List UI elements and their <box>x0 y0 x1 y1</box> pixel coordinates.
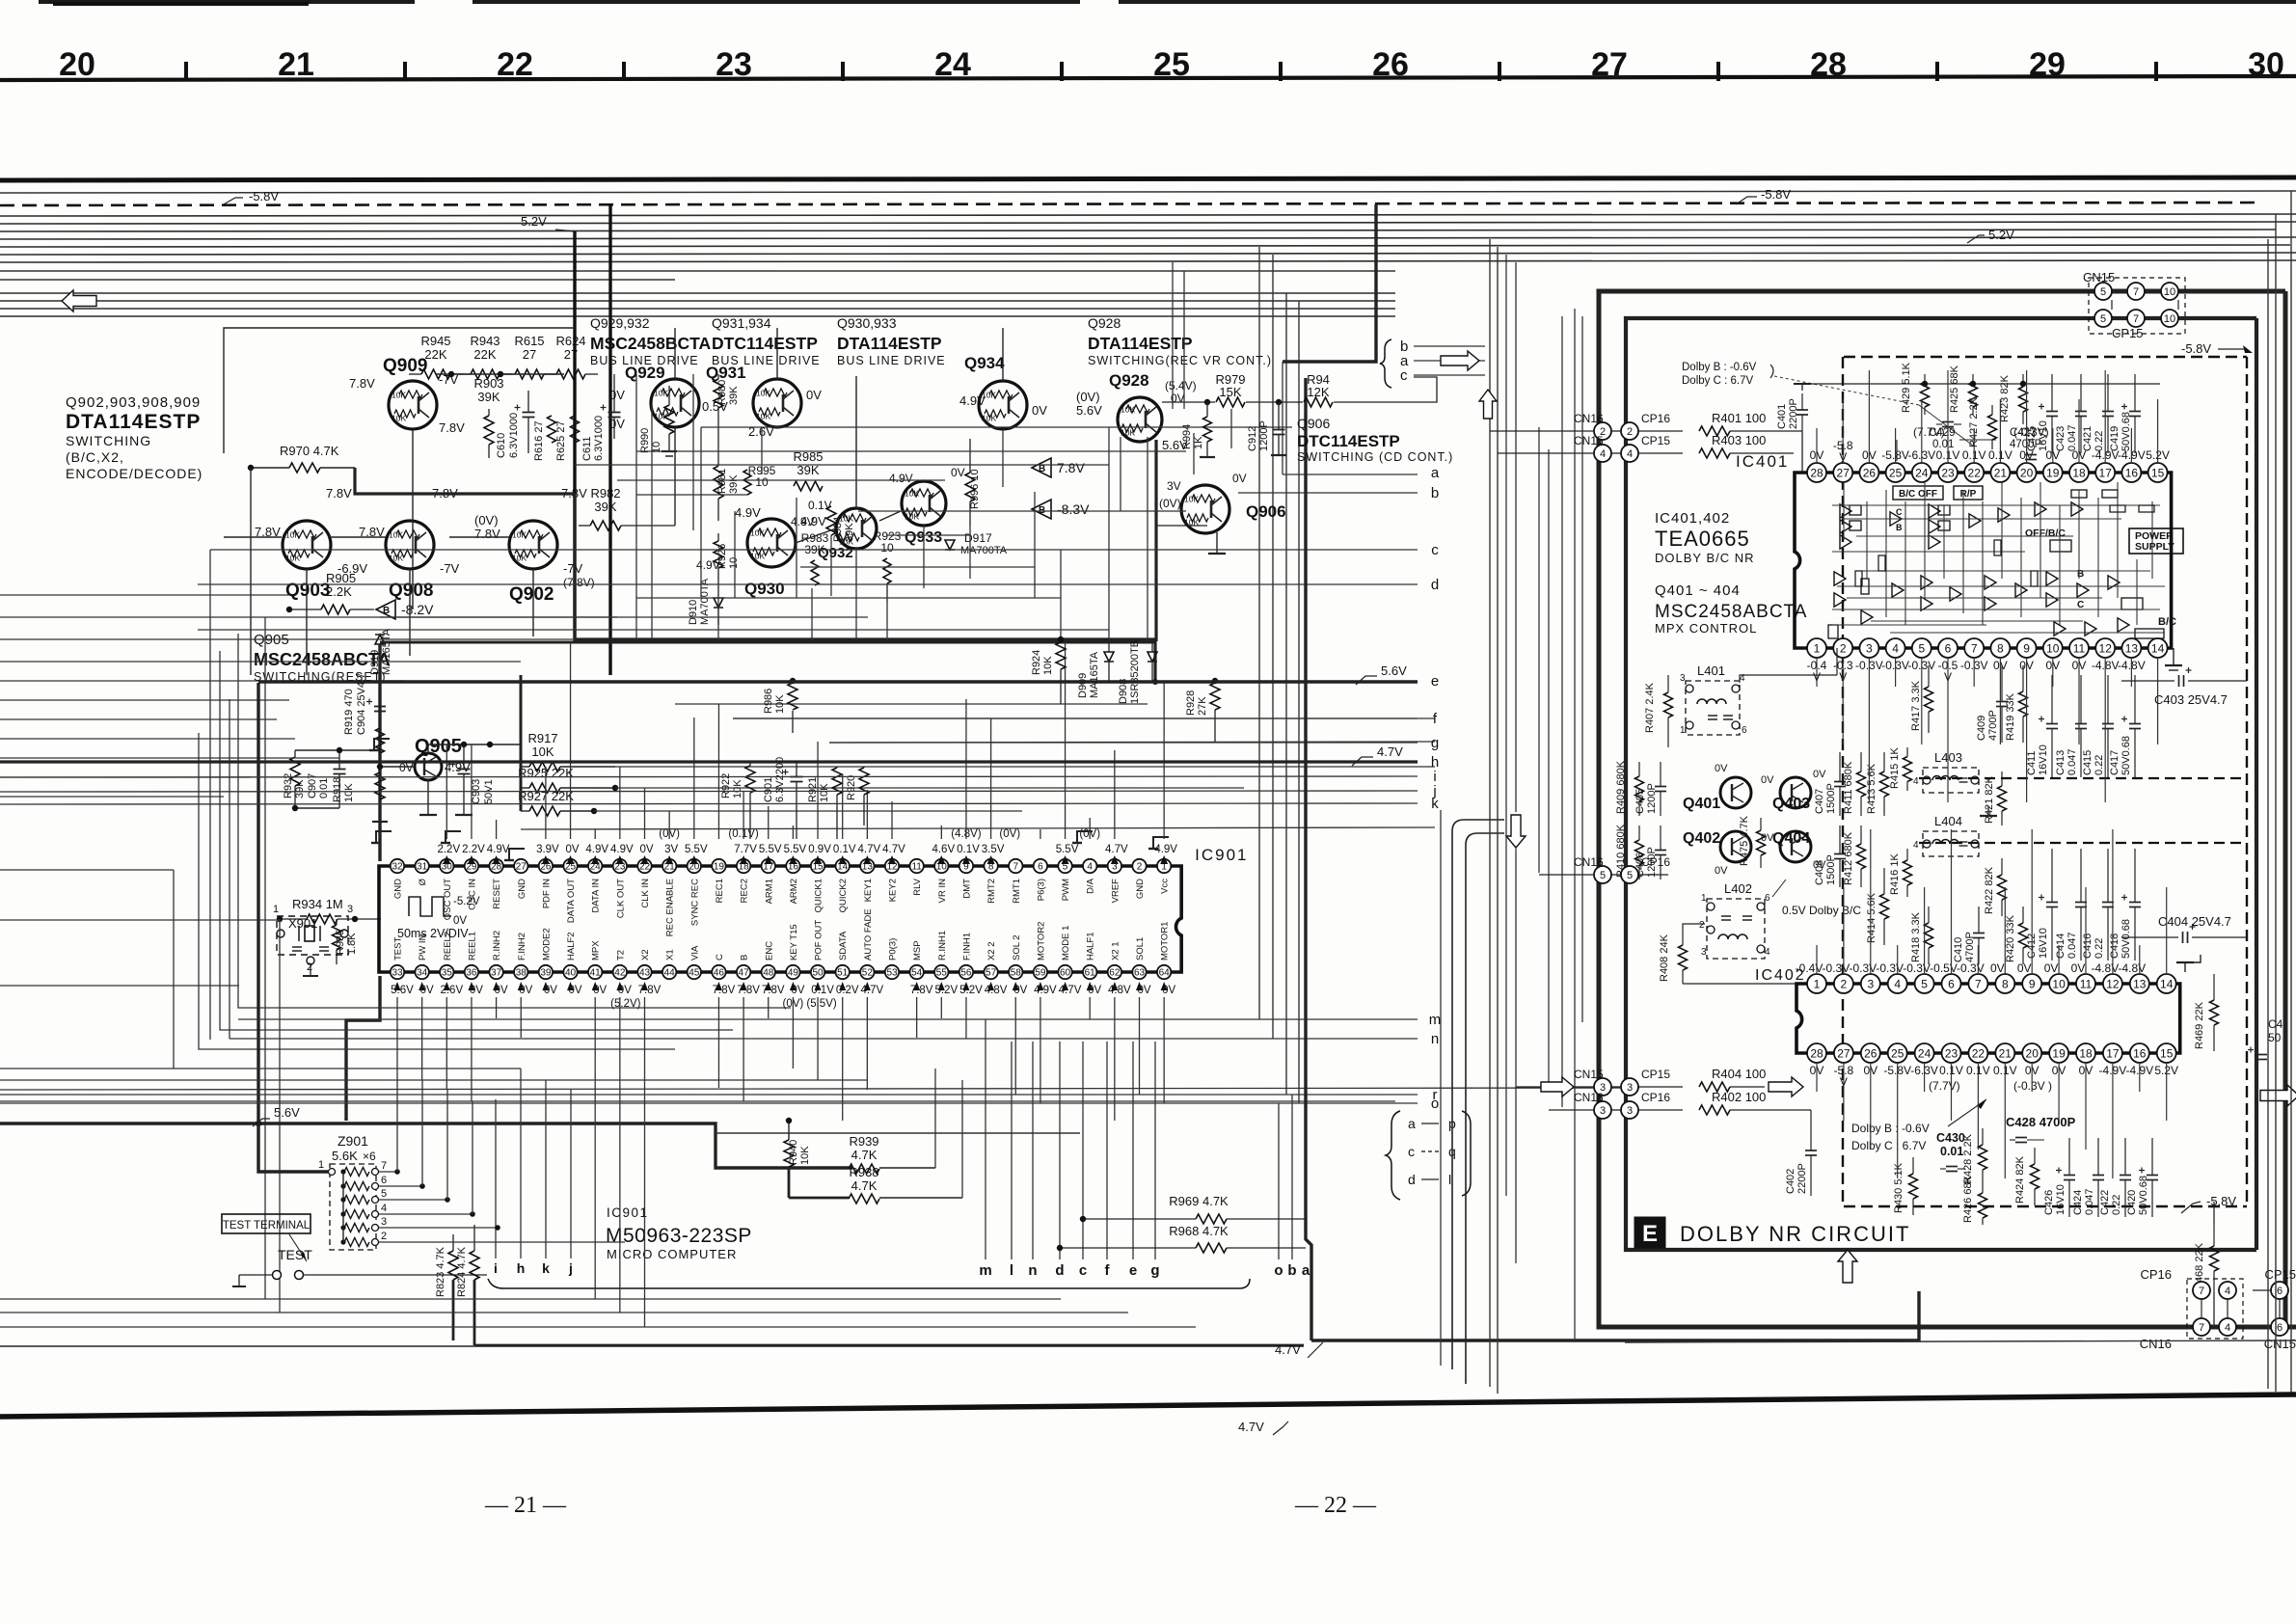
IC401 top pins 28-15 <box>1807 463 1826 482</box>
svg-text:4: 4 <box>381 1203 387 1214</box>
svg-text:CP15: CP15 <box>1641 434 1670 447</box>
svg-text:10: 10 <box>2164 286 2175 298</box>
svg-text:MOTOR2: MOTOR2 <box>1036 922 1046 961</box>
svg-text:l: l <box>1010 1262 1013 1279</box>
svg-text:-5.2V: -5.2V <box>453 896 480 907</box>
svg-text:27: 27 <box>516 862 527 873</box>
svg-text:10K: 10K <box>1121 428 1135 438</box>
svg-text:62: 62 <box>1109 968 1121 979</box>
node letter g <box>829 742 1418 744</box>
svg-text:35: 35 <box>442 968 453 979</box>
node letter e thick 5.6V wire <box>258 680 1418 683</box>
svg-text:4: 4 <box>2225 1286 2230 1297</box>
node letter i <box>0 776 1418 777</box>
svg-text:50: 50 <box>2268 1031 2282 1044</box>
svg-text:26: 26 <box>1864 1046 1877 1060</box>
wire q908 emitter <box>409 569 411 656</box>
wire to node d <box>198 583 1418 585</box>
svg-text:C403 25V4.7: C403 25V4.7 <box>2154 692 2228 707</box>
svg-text:C901: C901 <box>763 777 774 802</box>
svg-text:CLK IN: CLK IN <box>640 879 651 908</box>
wire collector row1 <box>436 373 564 375</box>
IC401 internal circuitry <box>1893 486 1943 500</box>
svg-text:B: B <box>740 955 750 961</box>
svg-text:10K: 10K <box>1184 495 1199 504</box>
IC401 bottom pins 1-14 <box>1807 638 1826 658</box>
svg-text:MPX CONTROL: MPX CONTROL <box>1655 621 1757 636</box>
svg-text:25: 25 <box>1891 1046 1904 1060</box>
svg-text:R990: R990 <box>639 428 651 453</box>
svg-text:-0.3V: -0.3V <box>1903 961 1931 975</box>
svg-text:d: d <box>1055 1262 1064 1279</box>
svg-text:(0V): (0V) <box>999 828 1020 840</box>
svg-text:0V: 0V <box>1032 403 1047 418</box>
svg-text:Q909: Q909 <box>383 356 427 376</box>
svg-text:Q906: Q906 <box>1297 416 1330 431</box>
svg-text:22: 22 <box>1972 1046 1985 1060</box>
svg-text:6.3V2200: 6.3V2200 <box>774 757 786 802</box>
svg-text:45: 45 <box>689 968 700 979</box>
svg-text:49: 49 <box>788 968 799 979</box>
svg-text:2.2K: 2.2K <box>326 584 352 599</box>
svg-text:R403 100: R403 100 <box>1712 433 1766 447</box>
wire spine vertical 8 <box>1561 316 1563 1107</box>
svg-text:22K: 22K <box>473 347 496 362</box>
svg-text:12K: 12K <box>1307 385 1329 399</box>
svg-text:R469 22K: R469 22K <box>2194 1001 2205 1049</box>
svg-text:44: 44 <box>664 968 676 979</box>
svg-text:7: 7 <box>2199 1286 2204 1297</box>
svg-text:C409: C409 <box>1976 716 1987 741</box>
svg-text:BUS LINE DRIVE: BUS LINE DRIVE <box>837 354 946 367</box>
resistor pack Z901 elements <box>344 1168 369 1177</box>
svg-text:D910: D910 <box>688 600 699 625</box>
svg-text:CP15: CP15 <box>1641 1068 1670 1081</box>
svg-text:6: 6 <box>1765 893 1770 904</box>
svg-text:56: 56 <box>960 968 972 979</box>
svg-text:R940: R940 <box>788 1140 799 1165</box>
arrow up dolby entry <box>1479 390 1497 419</box>
svg-text:3: 3 <box>1680 673 1686 684</box>
svg-text:KEY1: KEY1 <box>863 879 874 902</box>
svg-text:1SR35200TB: 1SR35200TB <box>1129 640 1141 704</box>
svg-text:R407 2.4K: R407 2.4K <box>1644 682 1656 733</box>
svg-text:C415: C415 <box>2082 750 2093 775</box>
svg-text:40: 40 <box>565 968 577 979</box>
svg-text:2: 2 <box>1840 641 1847 655</box>
wire c401 top <box>1801 384 1803 391</box>
svg-text:23: 23 <box>1941 466 1955 479</box>
svg-text:5.5V: 5.5V <box>784 844 807 855</box>
svg-text:R413 5.6K: R413 5.6K <box>1866 763 1877 814</box>
svg-text:c: c <box>1400 367 1408 384</box>
ground flag pin27 <box>446 831 461 843</box>
svg-text:(5.5V): (5.5V) <box>806 998 836 1010</box>
svg-text:1K: 1K <box>1193 436 1204 449</box>
svg-text:0V: 0V <box>1715 865 1728 877</box>
svg-text:7.8V: 7.8V <box>474 527 500 541</box>
svg-text:2: 2 <box>1627 426 1633 438</box>
wire q933 link <box>879 511 901 521</box>
node letter m <box>238 1018 1418 1020</box>
svg-text:34: 34 <box>417 968 428 979</box>
svg-text:10K: 10K <box>1042 656 1054 675</box>
svg-text:Q908: Q908 <box>389 581 433 601</box>
svg-text:4.7K: 4.7K <box>851 1148 878 1162</box>
svg-text:8: 8 <box>1997 641 2004 655</box>
svg-text:4.7V: 4.7V <box>858 844 881 855</box>
svg-text:SWITCHING: SWITCHING <box>66 433 151 448</box>
svg-text:X901: X901 <box>288 916 317 931</box>
wire base q908 <box>328 536 386 538</box>
wire spine vertical 7 <box>1548 449 1550 1084</box>
wire bottom bundle <box>0 1068 521 1069</box>
svg-text:i: i <box>494 1260 498 1276</box>
node letter f <box>733 717 1418 719</box>
svg-text:SWITCHING (CD CONT.): SWITCHING (CD CONT.) <box>1297 450 1453 464</box>
svg-text:2: 2 <box>1699 920 1705 931</box>
svg-text:R402 100: R402 100 <box>1712 1090 1766 1104</box>
svg-text:C610: C610 <box>496 433 507 458</box>
wire spine vertical 9 <box>1574 309 1576 1340</box>
svg-text:X1: X1 <box>665 949 676 961</box>
svg-text:16: 16 <box>2133 1046 2147 1060</box>
svg-text:L401: L401 <box>1697 663 1725 678</box>
svg-text:4.7V: 4.7V <box>882 844 905 855</box>
svg-text:10K: 10K <box>512 530 527 540</box>
svg-text:Q902,903,908,909: Q902,903,908,909 <box>66 394 201 411</box>
svg-text:10K: 10K <box>982 414 996 423</box>
connector bottom dashed <box>2187 1279 2243 1339</box>
svg-text:16V10: 16V10 <box>2055 1184 2066 1215</box>
svg-text:50V0.68: 50V0.68 <box>2120 412 2132 451</box>
svg-text:0.047: 0.047 <box>2066 748 2078 775</box>
svg-text:KEY T15: KEY T15 <box>789 924 799 961</box>
svg-text:5: 5 <box>2100 313 2106 325</box>
svg-text:11: 11 <box>2080 977 2093 990</box>
svg-text:0V: 0V <box>1715 763 1728 774</box>
svg-text:R982: R982 <box>590 486 620 501</box>
svg-text:n: n <box>1028 1262 1037 1279</box>
svg-text:DTC114ESTP: DTC114ESTP <box>712 334 818 353</box>
svg-text:R615: R615 <box>514 334 544 348</box>
svg-text:-4.8V: -4.8V <box>2092 961 2120 975</box>
svg-text:R415 1K: R415 1K <box>1889 747 1901 789</box>
svg-text:h: h <box>517 1260 526 1276</box>
wires into IC901 top pins <box>446 744 447 839</box>
wire spine vertical 12 <box>1505 255 1507 1196</box>
svg-text:50V0.68: 50V0.68 <box>2120 919 2132 959</box>
svg-text:DTC114ESTP: DTC114ESTP <box>1297 432 1400 450</box>
svg-text:MSP: MSP <box>912 940 923 961</box>
svg-text:C416: C416 <box>2082 934 2093 959</box>
svg-text:Dolby C : 6.7V: Dolby C : 6.7V <box>1851 1139 1926 1152</box>
svg-text:10K: 10K <box>819 783 830 802</box>
svg-text:5.5V: 5.5V <box>1056 844 1079 855</box>
svg-text:10K: 10K <box>756 389 770 398</box>
svg-text:61: 61 <box>1085 968 1096 979</box>
svg-text:C401: C401 <box>1776 404 1788 429</box>
svg-text:Q902: Q902 <box>509 584 554 605</box>
wire to node c <box>210 549 1418 551</box>
svg-text:2: 2 <box>307 961 312 973</box>
svg-text:C: C <box>2077 600 2084 610</box>
svg-text:B: B <box>383 606 390 616</box>
svg-text:55: 55 <box>936 968 948 979</box>
svg-text:3.9V: 3.9V <box>536 844 559 855</box>
svg-text:MODE 1: MODE 1 <box>1061 926 1071 961</box>
IC901 bottom pin row pins 33-64 <box>391 965 404 979</box>
svg-text:4: 4 <box>1892 641 1899 655</box>
svg-text:Q928: Q928 <box>1088 315 1121 331</box>
wire base q902 <box>449 536 509 538</box>
svg-text:33: 33 <box>392 968 403 979</box>
svg-text:10K: 10K <box>389 554 403 563</box>
wire right edge vertical 2 <box>2275 214 2277 1392</box>
svg-text:Q929,932: Q929,932 <box>590 315 650 331</box>
svg-text:(7.8V): (7.8V) <box>563 576 595 589</box>
svg-text:10K: 10K <box>392 414 406 423</box>
svg-text:D/A: D/A <box>1086 878 1096 894</box>
svg-text:a: a <box>1408 1116 1416 1131</box>
svg-text:3V: 3V <box>664 844 678 855</box>
svg-text:3: 3 <box>347 904 353 915</box>
svg-text:IC401: IC401 <box>1736 452 1789 471</box>
ground flag pin32 <box>376 831 392 843</box>
svg-text:1200P: 1200P <box>1646 783 1658 814</box>
svg-text:-8.3V: -8.3V <box>1057 501 1090 517</box>
svg-text:C402: C402 <box>1785 1169 1796 1194</box>
svg-text:R409 680K: R409 680K <box>1615 760 1627 814</box>
svg-text:10: 10 <box>2046 641 2060 655</box>
svg-text:C425: C425 <box>2026 426 2038 451</box>
svg-text:R625 27: R625 27 <box>555 420 567 461</box>
svg-text:39K: 39K <box>594 500 616 514</box>
svg-text:7: 7 <box>1975 977 1982 990</box>
svg-text:R905: R905 <box>326 571 356 585</box>
svg-text:1500P: 1500P <box>1825 783 1837 814</box>
arrow cn15 left <box>1541 1077 1574 1096</box>
svg-text:E: E <box>1642 1221 1658 1247</box>
svg-text:F.INH2: F.INH2 <box>517 933 527 961</box>
wire q906 bases <box>1157 525 1207 527</box>
svg-text:17: 17 <box>2106 1046 2120 1060</box>
svg-text:7: 7 <box>2133 286 2139 298</box>
Dolby NR outer border right <box>2283 291 2288 1327</box>
svg-text:C611: C611 <box>581 437 593 461</box>
wire region verticals <box>674 328 676 379</box>
wire bottom connector links <box>2201 1299 2202 1318</box>
node letter o <box>0 1102 1418 1104</box>
svg-text:SYNC REC: SYNC REC <box>689 879 700 926</box>
svg-text:5.2V: 5.2V <box>1988 228 2014 242</box>
wire spine rounded 2 <box>1466 833 1504 1384</box>
svg-text:3: 3 <box>1600 1105 1606 1117</box>
svg-text:47: 47 <box>739 968 750 979</box>
svg-text:0.01: 0.01 <box>1940 1145 1963 1158</box>
svg-text:39K: 39K <box>728 474 740 494</box>
svg-text:KEY2: KEY2 <box>888 879 899 902</box>
svg-text:DTA114ESTP: DTA114ESTP <box>66 411 201 433</box>
svg-text:C430: C430 <box>1936 1131 1965 1145</box>
svg-text:-0.3V: -0.3V <box>1957 961 1985 975</box>
svg-text:R823 4.7K: R823 4.7K <box>435 1246 446 1297</box>
svg-text:50V0.68: 50V0.68 <box>2138 1176 2149 1215</box>
svg-text:50ms 2V/DIV: 50ms 2V/DIV <box>397 927 469 940</box>
svg-text:Q931: Q931 <box>706 364 746 382</box>
svg-text:1: 1 <box>1701 893 1707 904</box>
node letter r <box>0 1094 1418 1096</box>
svg-text:(0V): (0V) <box>474 513 499 528</box>
svg-text:IC901: IC901 <box>1195 846 1248 864</box>
wire 5.6V thick rail <box>0 1123 852 1168</box>
svg-text:DTA114ESTP: DTA114ESTP <box>837 334 942 353</box>
svg-text:b: b <box>1287 1262 1296 1279</box>
triangle flag 7.8V <box>1032 458 1051 477</box>
wire q928 emitter <box>1154 440 1157 641</box>
svg-text:(0V): (0V) <box>1076 390 1100 404</box>
svg-text:0V: 0V <box>566 844 580 855</box>
wire q905 emitter gnd <box>427 780 429 815</box>
svg-text:IC901: IC901 <box>607 1205 649 1220</box>
transistor Q933 <box>902 481 946 526</box>
svg-text:Q401: Q401 <box>1683 796 1720 812</box>
svg-text:4.7V: 4.7V <box>1238 1420 1264 1434</box>
svg-text:39K: 39K <box>844 523 855 542</box>
wire vertical mid riser 3 <box>1285 293 1287 1095</box>
svg-text:C912: C912 <box>1247 426 1258 451</box>
svg-text:6: 6 <box>1945 641 1952 655</box>
svg-text:R920: R920 <box>846 775 857 800</box>
svg-text:15: 15 <box>2151 466 2165 479</box>
svg-text:C410: C410 <box>1953 937 1964 962</box>
svg-text:D917: D917 <box>964 531 992 545</box>
IC U-IC401 body <box>1795 473 2172 648</box>
svg-text:X2 2: X2 2 <box>986 941 997 961</box>
svg-text:7.8V: 7.8V <box>1057 460 1085 475</box>
svg-text:20: 20 <box>2026 1046 2039 1060</box>
svg-text:6: 6 <box>381 1175 387 1186</box>
svg-text:0V: 0V <box>2017 961 2032 975</box>
svg-text:10: 10 <box>2164 313 2175 325</box>
svg-text:C411: C411 <box>2026 751 2038 775</box>
svg-text:4700P: 4700P <box>1987 710 1999 741</box>
IC901 top pin row pins 32-1 <box>391 859 404 873</box>
wire q929 collector <box>674 427 676 526</box>
svg-text:19: 19 <box>2052 1046 2066 1060</box>
node letter k <box>0 803 1418 804</box>
svg-text:R430 5.1K: R430 5.1K <box>1893 1162 1904 1213</box>
svg-text:4: 4 <box>1913 840 1919 851</box>
svg-text:6.3V1000: 6.3V1000 <box>593 416 605 461</box>
svg-text:0V: 0V <box>609 417 625 431</box>
svg-text:5: 5 <box>1921 977 1928 990</box>
svg-text:4: 4 <box>2225 1322 2230 1334</box>
svg-text:C408: C408 <box>1814 860 1825 885</box>
svg-text:GND: GND <box>517 879 527 899</box>
svg-text:GND: GND <box>1135 879 1146 899</box>
svg-text:10K: 10K <box>732 779 743 798</box>
label TEST TERMINAL <box>222 1214 311 1233</box>
svg-text:o: o <box>1274 1262 1283 1279</box>
wire thick node B <box>575 494 1155 639</box>
svg-text:5.6V: 5.6V <box>1381 663 1407 678</box>
svg-text:DMT: DMT <box>961 879 972 899</box>
svg-text:7.7V: 7.7V <box>734 844 757 855</box>
Dolby NR outer border <box>1599 291 2296 1327</box>
svg-text:ARM2: ARM2 <box>789 879 799 904</box>
svg-text:1200P: 1200P <box>1258 420 1270 451</box>
svg-text:R945: R945 <box>420 334 450 348</box>
ground R990 <box>662 450 677 452</box>
svg-text:L402: L402 <box>1724 881 1752 896</box>
svg-text:-7V: -7V <box>440 561 460 576</box>
svg-text:23: 23 <box>1945 1046 1958 1060</box>
wire spine vertical 5 <box>1515 262 1517 812</box>
transistor Q906 upper <box>1181 485 1229 533</box>
svg-text:10K: 10K <box>343 783 355 802</box>
ground IC402 pin14 <box>2184 962 2186 972</box>
svg-text:2: 2 <box>1137 862 1143 873</box>
svg-text:3: 3 <box>1867 977 1874 990</box>
svg-text:d: d <box>1431 577 1439 593</box>
svg-text:R422 82K: R422 82K <box>1984 866 1995 914</box>
wire r408 l402 <box>1683 924 1705 932</box>
connector CN15 top dashes <box>2089 278 2185 334</box>
svg-text:DATA IN: DATA IN <box>591 879 602 913</box>
svg-text:-0.3V: -0.3V <box>1823 961 1850 975</box>
svg-text:15: 15 <box>2160 1046 2174 1060</box>
svg-text:0V: 0V <box>1761 774 1774 786</box>
svg-text:DTA114ESTP: DTA114ESTP <box>1088 334 1193 353</box>
svg-text:Vcc: Vcc <box>1160 879 1171 894</box>
ground mid <box>1987 806 1989 816</box>
svg-text:F.INH1: F.INH1 <box>961 933 972 961</box>
svg-text:0V: 0V <box>951 466 965 479</box>
svg-text:0.1V: 0.1V <box>833 844 856 855</box>
svg-text:(-0.3V ): (-0.3V ) <box>2013 1079 2052 1093</box>
svg-text:-0.4V: -0.4V <box>1796 961 1823 975</box>
svg-text:15K: 15K <box>1219 385 1241 399</box>
svg-text:5.2V: 5.2V <box>521 214 547 229</box>
svg-text:RESET: RESET <box>492 879 502 909</box>
svg-text:4: 4 <box>1627 448 1633 460</box>
svg-text:13: 13 <box>2133 977 2147 990</box>
svg-text:25: 25 <box>1889 466 1903 479</box>
svg-text:5: 5 <box>2100 286 2106 298</box>
svg-text:10: 10 <box>2052 977 2066 990</box>
svg-text:50V0.68: 50V0.68 <box>2120 736 2132 775</box>
node bracket a-p c-q d-l <box>1386 1111 1400 1200</box>
svg-text:R969 4.7K: R969 4.7K <box>1169 1194 1229 1208</box>
svg-text:REC1: REC1 <box>715 879 725 903</box>
svg-text:19: 19 <box>714 862 725 873</box>
svg-text:R968 4.7K: R968 4.7K <box>1169 1224 1229 1238</box>
svg-text:Q930,933: Q930,933 <box>837 315 897 331</box>
svg-text:R417 3.3K: R417 3.3K <box>1910 680 1922 731</box>
svg-text:1: 1 <box>1814 977 1821 990</box>
svg-text:4: 4 <box>1765 947 1770 958</box>
svg-text:R919 470: R919 470 <box>343 689 355 735</box>
svg-text:2: 2 <box>1841 977 1848 990</box>
wire q930 q932 link <box>796 528 836 543</box>
svg-text:28: 28 <box>1810 466 1823 479</box>
label E DOLBY NR CIRCUIT <box>1634 1217 1665 1248</box>
wire vertical mid riser 4 <box>1298 301 1300 1103</box>
svg-text:Q402: Q402 <box>1683 830 1720 847</box>
svg-text:10K: 10K <box>1121 405 1135 415</box>
svg-text:Q934: Q934 <box>964 354 1005 372</box>
